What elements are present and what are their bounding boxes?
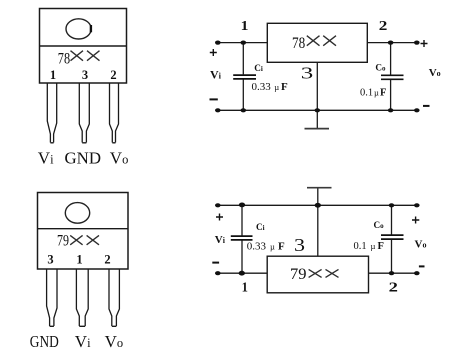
capacitor C4 plates — [381, 235, 404, 239]
package U2 tab divider line — [38, 228, 129, 230]
circuit1 junction dot C1 bottom — [241, 108, 247, 112]
svg-text:2: 2 — [389, 280, 398, 295]
svg-text:Ci: Ci — [256, 222, 265, 232]
svg-text:78: 78 — [58, 51, 70, 68]
circuit1 top wire left segment — [218, 42, 268, 44]
circuit2 bottom wire left segment — [218, 272, 268, 274]
svg-text:Ci: Ci — [254, 63, 263, 73]
svg-text:3: 3 — [301, 63, 314, 82]
circuit2 junction dot ground node — [315, 203, 321, 208]
svg-text:1: 1 — [76, 253, 82, 267]
package U1 leg pin1 — [47, 84, 56, 143]
capacitor C3 input lead upper — [241, 205, 243, 235]
circuit2 junction dot C3 bottom — [239, 271, 245, 276]
circuit1 output plus sign — [421, 40, 428, 47]
circuit1 top wire right segment — [367, 42, 417, 44]
svg-text:Co: Co — [374, 220, 385, 230]
capacitor C4 output lead lower — [391, 240, 393, 274]
circuit2 junction dot C4 top — [389, 203, 395, 207]
circuit2 input plus sign — [216, 214, 223, 221]
circuit1 terminal dot top-left — [215, 41, 221, 45]
circuit1 pin 3 wire — [316, 62, 318, 110]
package U1 leg pin3 — [79, 84, 89, 143]
capacitor C4 output lead upper — [391, 205, 393, 234]
circuit1 input plus sign — [210, 49, 217, 56]
circuit2 terminal dot top-right — [414, 203, 420, 207]
svg-text:1: 1 — [242, 281, 248, 296]
svg-text:Vo: Vo — [429, 67, 441, 79]
circuit2 terminal dot top-left — [215, 203, 221, 207]
circuit1 junction dot node1 — [241, 41, 247, 45]
circuit2 ground stub — [317, 188, 319, 205]
circuit1 terminal dot bottom-left — [215, 108, 221, 112]
circuit1 ground bar — [305, 128, 330, 130]
capacitor C2 output lead lower — [390, 80, 392, 110]
package U2 leg pin3 — [47, 270, 57, 327]
svg-text:Vi: Vi — [215, 234, 226, 246]
svg-text:0.33µF: 0.33µF — [247, 241, 285, 253]
circuit2 output minus sign — [419, 265, 425, 267]
circuit2 junction dot C4 bottom — [389, 271, 395, 275]
capacitor C2 output lead upper — [390, 43, 392, 75]
package U2 mounting hole — [65, 203, 89, 224]
capacitor C3 plates — [231, 236, 253, 240]
circuit1 bottom wire — [218, 109, 417, 111]
circuit2 top wire — [218, 204, 417, 206]
package U2 79xx body outline — [38, 193, 129, 270]
svg-text:GND: GND — [30, 332, 59, 351]
svg-text:Vi: Vi — [210, 67, 222, 81]
regulator box U4 79xx — [267, 256, 368, 293]
svg-text:0.1µF: 0.1µF — [360, 88, 386, 99]
svg-text:GND: GND — [65, 148, 102, 167]
capacitor C3 input lead lower — [241, 241, 243, 274]
svg-text:3: 3 — [47, 253, 53, 267]
svg-text:1: 1 — [241, 19, 249, 34]
svg-text:3: 3 — [82, 68, 88, 82]
circuit2 terminal dot bottom-left — [215, 271, 221, 275]
capacitor C1 plates — [233, 75, 256, 79]
regulator box U3 78xx — [267, 23, 367, 62]
capacitor C1 input lead lower — [242, 80, 244, 111]
package U2 leg pin2 — [109, 270, 119, 327]
svg-text:2: 2 — [379, 19, 388, 34]
regulator box U4 label xx crosses — [309, 269, 339, 277]
package U1 label xx crosses — [71, 51, 100, 61]
package U1 leg pin2 — [110, 84, 119, 143]
circuit2 input minus sign — [212, 262, 219, 264]
package U1 tab divider line — [40, 45, 127, 47]
circuit1 junction dot ground node — [315, 108, 321, 112]
circuit2 junction dot C3 top — [239, 203, 245, 208]
package U1 78xx body outline — [40, 9, 127, 84]
svg-text:78: 78 — [292, 35, 305, 52]
regulator box U3 label xx crosses — [307, 36, 336, 46]
circuit1 junction dot node2 — [388, 41, 394, 45]
circuit1 terminal dot top-right — [414, 41, 420, 45]
package U1 hole notch — [90, 25, 92, 32]
circuit1 terminal dot bottom-right — [414, 108, 420, 112]
circuit2 pin 3 wire — [317, 205, 319, 256]
svg-text:3: 3 — [294, 235, 305, 255]
svg-text:2: 2 — [110, 68, 116, 82]
capacitor C2 plates — [381, 75, 404, 79]
capacitor C1 input lead upper — [242, 43, 244, 75]
package U1 mounting hole — [66, 19, 91, 39]
svg-text:0.33µF: 0.33µF — [252, 81, 289, 93]
svg-text:2: 2 — [104, 253, 110, 267]
circuit1 input minus sign — [210, 98, 218, 100]
package U2 leg pin1 — [76, 270, 88, 327]
circuit2 bottom wire right segment — [369, 272, 417, 274]
circuit1 junction dot C2 bottom — [388, 108, 394, 112]
circuit2 ground bar — [307, 187, 332, 189]
svg-text:Co: Co — [375, 63, 386, 73]
svg-text:Vo: Vo — [415, 239, 427, 251]
circuit1 output minus sign — [423, 105, 430, 107]
svg-text:79: 79 — [57, 233, 69, 250]
circuit2 terminal dot bottom-right — [414, 271, 420, 275]
circuit1 ground stub — [316, 110, 318, 128]
package U2 label xx crosses — [70, 235, 99, 244]
svg-text:79: 79 — [290, 266, 307, 283]
circuit2 output plus sign — [412, 217, 419, 224]
svg-text:1: 1 — [50, 68, 56, 82]
